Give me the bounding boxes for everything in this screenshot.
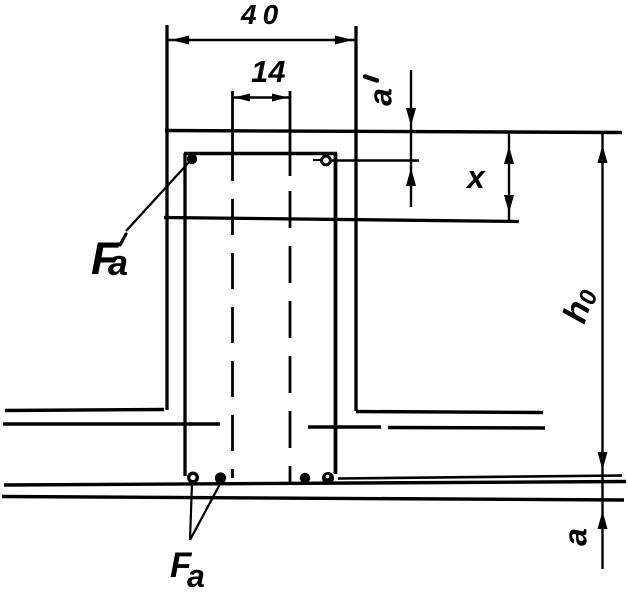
svg-text:40: 40 [240, 0, 284, 30]
svg-text:x: x [465, 159, 486, 195]
svg-text:a: a [362, 88, 398, 106]
svg-text:a: a [108, 242, 128, 283]
svg-text:a: a [187, 558, 205, 593]
svg-text:14: 14 [251, 54, 285, 89]
svg-text:a: a [557, 528, 593, 546]
